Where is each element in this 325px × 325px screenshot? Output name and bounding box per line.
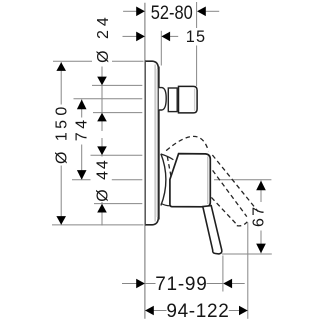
dimension D150 <box>52 61 144 225</box>
svg-text:Ø: Ø <box>95 50 112 62</box>
svg-text:4: 4 <box>94 171 111 180</box>
svg-text:4: 4 <box>94 160 111 169</box>
handle lever <box>203 206 222 254</box>
svg-text:52-80: 52-80 <box>151 2 193 24</box>
handle body <box>170 154 210 207</box>
svg-text:2: 2 <box>95 30 112 39</box>
svg-text:Ø: Ø <box>94 189 111 201</box>
svg-text:71-99: 71-99 <box>155 274 207 295</box>
label D150 <box>54 107 71 164</box>
label D24 <box>95 17 112 63</box>
knob body <box>179 86 198 113</box>
knob escutcheon bump <box>159 88 166 110</box>
svg-text:7: 7 <box>73 132 90 141</box>
svg-text:Ø: Ø <box>54 152 71 164</box>
label 67 <box>250 207 267 227</box>
knob face shading <box>194 89 196 111</box>
plate front face line <box>158 67 160 220</box>
plate back edge <box>144 61 146 225</box>
svg-text:15: 15 <box>186 28 207 46</box>
svg-text:4: 4 <box>73 120 90 129</box>
dimension 74 <box>74 99 143 180</box>
svg-text:1: 1 <box>54 132 71 141</box>
dimension 94-122 <box>145 223 248 319</box>
plate face shading <box>156 69 158 217</box>
dashed rotated lever lower edge <box>211 197 236 224</box>
svg-text:7: 7 <box>250 207 267 216</box>
plate inner edge line <box>154 65 156 222</box>
dashed rotated lever tip cap <box>237 222 248 226</box>
label 74 <box>73 120 90 142</box>
dashed rotated lever upper edge <box>213 170 247 216</box>
wire wall extension line <box>144 3 146 319</box>
svg-text:5: 5 <box>54 120 71 129</box>
escutcheon plate (side view) <box>145 61 159 225</box>
handle body edge highlight <box>207 157 209 205</box>
dashed rotated body edge line <box>212 155 258 212</box>
dimension D24 <box>92 67 142 132</box>
handle rosette arc <box>161 154 166 206</box>
dimension 67 <box>72 180 272 254</box>
svg-text:94-122: 94-122 <box>166 301 229 322</box>
knob neck <box>168 88 177 112</box>
dimension 52-80 <box>123 2 219 86</box>
rosette top edge <box>161 154 174 160</box>
rosette bottom edge <box>161 203 170 205</box>
dashed rotated-handle left edge <box>167 157 171 178</box>
svg-text:4: 4 <box>95 17 112 26</box>
dimension 71-99 <box>122 256 245 292</box>
dimension 15 <box>123 31 179 66</box>
svg-text:6: 6 <box>250 218 267 227</box>
dashed rotated-handle top arc <box>166 136 208 151</box>
label D44 <box>94 160 111 202</box>
dimension D44 <box>91 138 143 226</box>
svg-text:0: 0 <box>54 107 71 116</box>
